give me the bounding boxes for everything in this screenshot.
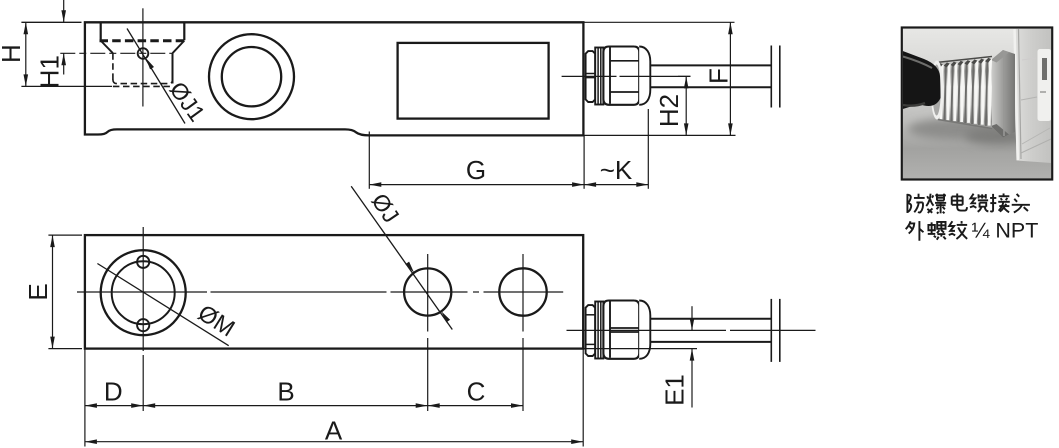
cable break symbol (side view) — [770, 46, 772, 108]
right edge extension line — [582, 349, 584, 447]
pocket lower hidden line — [113, 85, 173, 87]
hole M small circle bottom — [137, 319, 149, 331]
dimension E — [23, 235, 82, 349]
loading hole inner circle — [222, 47, 281, 106]
pocket bold hidden edge — [100, 39, 186, 42]
svg-text:~K: ~K — [600, 155, 633, 185]
svg-text:E1: E1 — [660, 374, 690, 406]
dimension H2 — [654, 76, 690, 135]
hole M vertical centerline — [142, 227, 144, 351]
gland centerline (side view) — [562, 75, 617, 77]
svg-text:F: F — [703, 68, 733, 84]
svg-text:H1: H1 — [34, 55, 64, 88]
leader line ØJ — [351, 186, 452, 329]
hole J left circle — [404, 268, 451, 315]
dimension H — [0, 22, 112, 86]
caption text — [907, 193, 1029, 213]
label plate — [398, 43, 549, 119]
dimension ~K — [584, 109, 648, 189]
gland centerline (top view) — [567, 329, 727, 331]
hole J1 horizontal centerline — [60, 52, 172, 54]
dimension B — [143, 377, 428, 408]
cable (side view) — [650, 64, 771, 66]
hole M small circle top — [137, 256, 149, 268]
top view body outline — [85, 235, 583, 349]
top edge extension line right — [583, 21, 734, 23]
dimension D — [85, 377, 143, 408]
svg-text:ØJ: ØJ — [367, 189, 405, 228]
hole M outer circle — [101, 250, 186, 335]
dimension E1 — [660, 306, 695, 407]
hole J1 vertical centerline — [142, 8, 144, 106]
pocket outer wall left — [100, 22, 102, 40]
bottom edge extension (top view right) — [583, 348, 697, 350]
dimension A — [85, 416, 583, 446]
pocket inner wall left (hidden) — [112, 53, 114, 80]
cable (top view) — [650, 318, 771, 320]
svg-text:H: H — [0, 44, 26, 63]
svg-text:G: G — [466, 155, 486, 185]
hole M bolt circle — [112, 261, 175, 324]
svg-text:C: C — [467, 377, 486, 407]
bottom edge extension line right — [583, 134, 735, 136]
pocket floor (hidden) — [113, 80, 173, 84]
cable gland (side view) — [586, 51, 596, 102]
left edge extension line — [84, 349, 86, 447]
cable gland (top view) — [586, 305, 596, 356]
dimension H1 — [34, 0, 66, 88]
svg-text:H2: H2 — [654, 94, 684, 127]
cable break symbol (top view) — [770, 299, 772, 362]
leader line ØM — [97, 264, 228, 346]
svg-text:D: D — [104, 377, 123, 407]
svg-text:¼ NPT: ¼ NPT — [972, 219, 1039, 243]
side view body outline — [85, 22, 584, 135]
hole J right circle — [499, 268, 546, 315]
dimension F — [703, 22, 733, 135]
top edge extension line left — [21, 21, 81, 23]
hole J1 circle — [138, 48, 149, 59]
loading hole outer circle — [209, 34, 294, 119]
pocket chamfer left — [101, 41, 113, 54]
hole J left vertical centerline — [427, 254, 429, 332]
svg-text:A: A — [325, 416, 343, 446]
svg-text:B: B — [277, 377, 294, 407]
horizontal centerline — [77, 291, 207, 293]
pocket outer wall right — [183, 22, 185, 40]
pocket chamfer right — [173, 41, 185, 54]
leader line ØJ1 — [127, 29, 185, 124]
dimension C — [428, 377, 523, 408]
dimension G — [369, 132, 584, 189]
hole J right vertical centerline — [522, 254, 524, 332]
svg-text:E: E — [23, 283, 53, 300]
pocket inner wall right — [172, 53, 174, 83]
